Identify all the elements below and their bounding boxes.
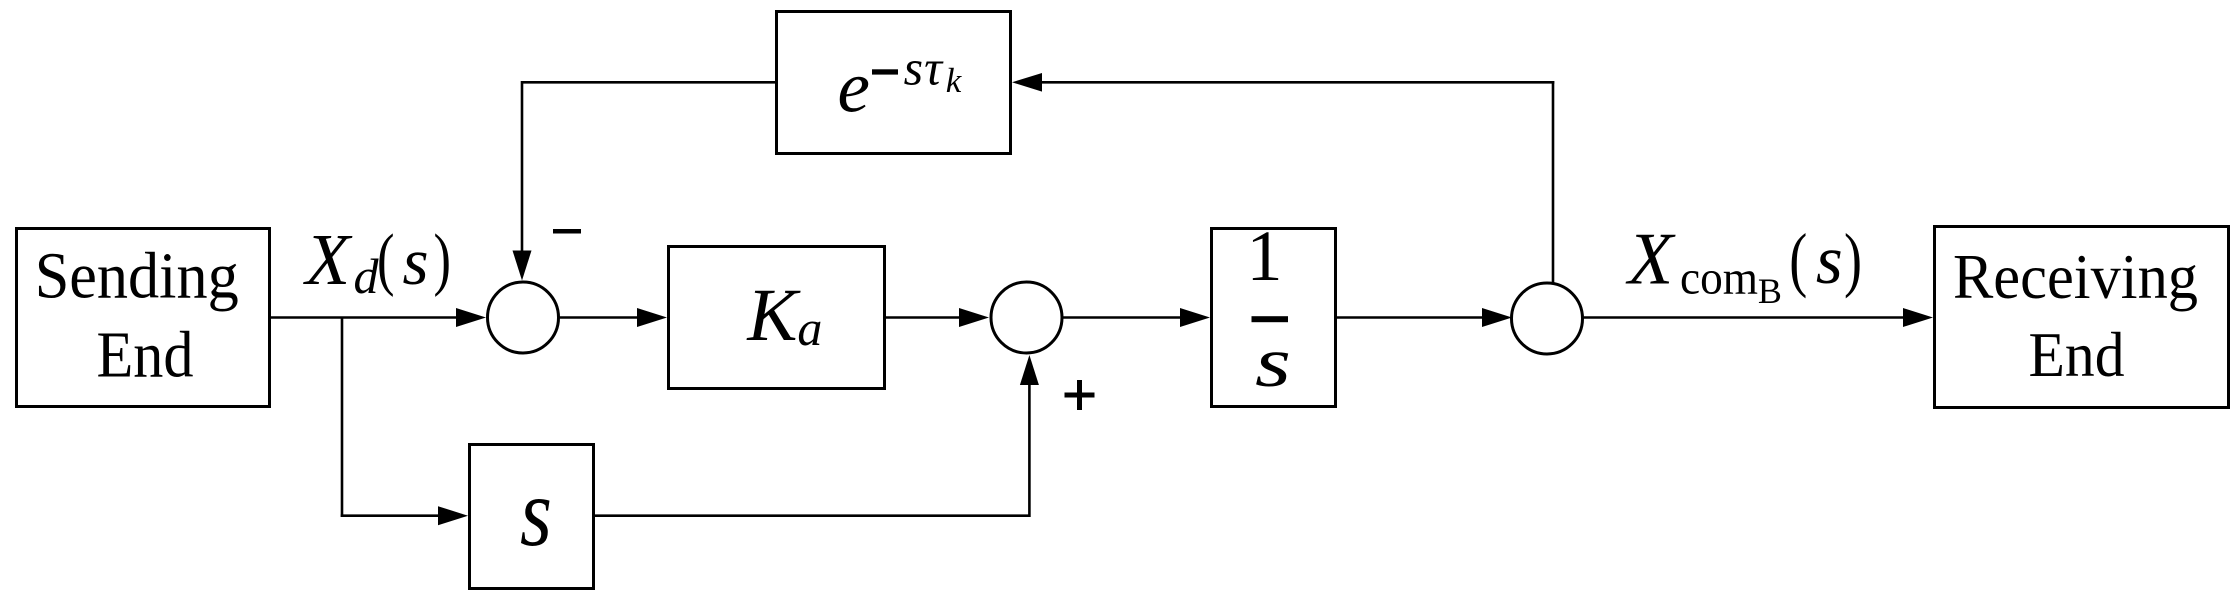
wire: integrator to node N1 [1337, 308, 1512, 327]
svg-text:a: a [797, 300, 822, 356]
block 1/s integrator [1212, 216, 1336, 407]
svg-text:s: s [1816, 222, 1843, 298]
svg-text:X: X [303, 219, 353, 300]
node A: branch point on input line [341, 318, 344, 518]
svg-text:k: k [946, 61, 963, 100]
wire: branch down to s block [341, 506, 468, 525]
svg-text:B: B [1758, 271, 1782, 311]
svg-text:s: s [403, 225, 429, 299]
wire: delay block output down to summing junction S1 (minus input) [513, 81, 776, 281]
block Sending End [17, 229, 270, 407]
svg-text:End: End [2029, 319, 2125, 390]
summing junction S2 [991, 282, 1062, 353]
wire: S1 to Ka block [559, 308, 668, 327]
label XcomB(s) [1625, 218, 1862, 311]
svg-text:K: K [746, 274, 801, 357]
svg-text:): ) [1844, 219, 1862, 299]
wire: Ka to summing junction S2 [886, 308, 989, 327]
block Receiving End [1935, 227, 2229, 408]
svg-text:e: e [838, 46, 870, 127]
svg-text:d: d [354, 248, 380, 304]
label minus sign at S1 [553, 229, 581, 234]
wire: node N1 to Receiving End [1583, 308, 1934, 327]
svg-text:X: X [1625, 218, 1676, 300]
svg-text:(: ( [377, 221, 395, 298]
svg-text:Receiving: Receiving [1953, 241, 2198, 312]
block s (derivative) [470, 445, 594, 589]
svg-text:End: End [97, 319, 194, 392]
wire: Sending End output to summing junction S1 [270, 308, 486, 327]
svg-text:): ) [434, 221, 452, 298]
svg-text:Sending: Sending [35, 240, 239, 313]
wire: s block output to summing junction S2 (plus input) [595, 355, 1039, 517]
block delay e^-s*tau_k [777, 12, 1011, 154]
wire: feedback from node N1 up to delay block [1012, 73, 1554, 284]
label Xd(s) [303, 219, 452, 304]
svg-text:1: 1 [1247, 216, 1283, 296]
node N1: output pickoff junction [1512, 283, 1583, 354]
label plus sign at S2 [1065, 380, 1095, 410]
svg-text:s: s [904, 39, 923, 95]
summing junction S1 [488, 282, 559, 353]
svg-text:s: s [1255, 324, 1291, 402]
svg-text:s: s [520, 459, 552, 566]
svg-text:(: ( [1789, 219, 1807, 299]
block Ka [669, 247, 885, 389]
wire: S2 to integrator block [1062, 308, 1210, 327]
svg-text:com: com [1680, 252, 1758, 305]
svg-text:τ: τ [924, 39, 944, 95]
